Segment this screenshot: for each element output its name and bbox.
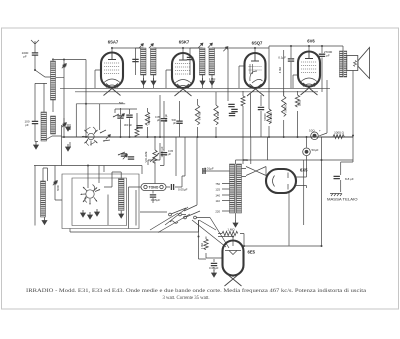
svg-text:1 MΩ: 1 MΩ bbox=[209, 77, 215, 81]
svg-text:50μF: 50μF bbox=[312, 148, 319, 152]
svg-text:8-8 μF: 8-8 μF bbox=[345, 177, 354, 181]
svg-text:140: 140 bbox=[215, 194, 220, 198]
svg-text:pF: pF bbox=[173, 121, 176, 125]
svg-text:4 MΩ: 4 MΩ bbox=[278, 67, 282, 73]
svg-text:6SQ7: 6SQ7 bbox=[252, 41, 263, 46]
svg-text:3 watt. Corrente 35 watt.: 3 watt. Corrente 35 watt. bbox=[163, 295, 210, 301]
svg-text:+: + bbox=[319, 129, 321, 133]
svg-text:0.1μF: 0.1μF bbox=[278, 56, 286, 60]
svg-text:0.5 MΩ: 0.5 MΩ bbox=[198, 112, 202, 120]
svg-text:10 MΩ: 10 MΩ bbox=[216, 112, 220, 120]
svg-text:1 MΩ: 1 MΩ bbox=[200, 243, 204, 249]
svg-text:6E5: 6E5 bbox=[248, 250, 256, 255]
svg-text:300 pF: 300 pF bbox=[124, 123, 132, 127]
svg-text:pF: pF bbox=[25, 123, 29, 127]
svg-text:30Ω: 30Ω bbox=[243, 158, 248, 162]
svg-text:50000: 50000 bbox=[263, 113, 267, 121]
svg-text:1000 Ω: 1000 Ω bbox=[334, 131, 345, 135]
svg-text:0.05μF: 0.05μF bbox=[209, 266, 219, 270]
svg-text:μF: μF bbox=[168, 152, 171, 156]
svg-text:TONO: TONO bbox=[149, 186, 159, 190]
svg-text:50000Ω: 50000Ω bbox=[147, 115, 151, 124]
svg-text:pF: pF bbox=[326, 54, 330, 58]
svg-text:MASSA TELAIO: MASSA TELAIO bbox=[327, 198, 358, 202]
svg-text:0.05μF: 0.05μF bbox=[178, 188, 188, 192]
svg-text:50000Ω: 50000Ω bbox=[284, 103, 288, 112]
svg-text:0.05μF: 0.05μF bbox=[151, 198, 161, 202]
svg-text:6V6: 6V6 bbox=[307, 39, 315, 44]
svg-text:0.25MΩ: 0.25MΩ bbox=[269, 112, 273, 121]
svg-text:1 MΩ: 1 MΩ bbox=[227, 228, 235, 232]
svg-text:220: 220 bbox=[215, 210, 220, 214]
svg-text:750: 750 bbox=[215, 182, 220, 186]
svg-text:110: 110 bbox=[216, 199, 221, 203]
svg-text:6X5: 6X5 bbox=[300, 168, 308, 173]
svg-text:500: 500 bbox=[119, 101, 124, 105]
svg-text:10Ω: 10Ω bbox=[309, 129, 315, 133]
svg-text:300 pF: 300 pF bbox=[164, 114, 168, 122]
svg-text:10000 pF: 10000 pF bbox=[160, 146, 164, 157]
svg-text:6SA7: 6SA7 bbox=[108, 40, 119, 45]
svg-text:μF: μF bbox=[157, 118, 160, 122]
svg-text:pF: pF bbox=[23, 55, 27, 59]
svg-text:5000: 5000 bbox=[56, 185, 60, 191]
svg-text:6SK7: 6SK7 bbox=[179, 40, 190, 45]
svg-text:125: 125 bbox=[215, 188, 220, 192]
svg-text:350Ω: 350Ω bbox=[298, 100, 302, 106]
svg-text:0.01μF: 0.01μF bbox=[204, 167, 214, 171]
svg-text:VOLUME: VOLUME bbox=[144, 151, 148, 162]
svg-text:IRRADIO - Modd. E31, E33 ed E4: IRRADIO - Modd. E31, E33 ed E43. Onde me… bbox=[26, 287, 367, 294]
